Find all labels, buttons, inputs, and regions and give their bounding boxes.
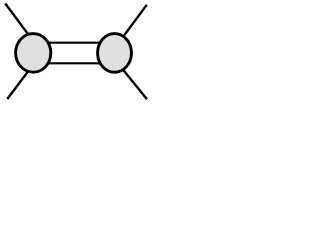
wire top-right external leg	[114, 5, 146, 49]
wire top-left external leg	[5, 4, 33, 41]
wire bottom-left external leg	[7, 64, 33, 99]
node left blob	[16, 34, 51, 73]
node right blob	[98, 34, 132, 73]
wire lower connector between blobs	[45, 62, 103, 64]
wire bottom-right external leg	[114, 59, 147, 99]
wire upper connector between blobs	[45, 42, 103, 44]
